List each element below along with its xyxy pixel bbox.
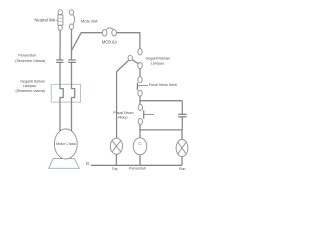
overload NO side terminal bbox=[128, 55, 132, 60]
wire B to stop button bbox=[139, 69, 141, 77]
holding aux contact C1 bars bbox=[178, 114, 186, 117]
motor M1 bbox=[54, 129, 77, 159]
stop button bridge bar bbox=[136, 83, 138, 91]
svg-text:(Sesentuh Utama): (Sesentuh Utama) bbox=[15, 59, 45, 63]
trip lamp wire vertical bbox=[116, 72, 118, 139]
wire stop to start bbox=[139, 96, 141, 104]
holding aux contact branch vertical top bbox=[181, 101, 183, 114]
contactor coil C bbox=[133, 138, 147, 155]
start button bridge bar bbox=[143, 110, 145, 118]
overload relay heater box bbox=[51, 84, 80, 102]
stop button actuator line bbox=[137, 84, 148, 86]
wire + heater jog neutral line bbox=[60, 63, 63, 133]
svg-text:Trip: Trip bbox=[112, 167, 118, 171]
overload trip contact terminal A bbox=[138, 49, 142, 55]
svg-text:MCB 6A: MCB 6A bbox=[102, 39, 118, 44]
svg-text:C: C bbox=[138, 142, 141, 146]
svg-text:Lampau: Lampau bbox=[23, 84, 36, 88]
wire + heater jog phase line bbox=[72, 63, 75, 133]
svg-text:Pensentuh: Pensentuh bbox=[129, 167, 146, 171]
holding branch top wire bbox=[140, 100, 182, 102]
svg-text:Lampau: Lampau bbox=[151, 61, 164, 65]
coil bottom stub bbox=[139, 155, 141, 166]
svg-text:N: N bbox=[86, 161, 89, 166]
svg-text:Run: Run bbox=[179, 167, 185, 171]
neutral link FN bbox=[58, 10, 63, 31]
trip lamp bottom stub bbox=[115, 154, 117, 165]
start button contact circles bbox=[138, 105, 142, 125]
overload moving arm bbox=[132, 60, 138, 64]
svg-text:Geganti Beban: Geganti Beban bbox=[20, 79, 45, 83]
start button actuator line bbox=[144, 113, 154, 115]
wire neutral column down bbox=[59, 30, 61, 59]
wire tap diagonal to MCB 6A bbox=[72, 33, 103, 51]
overload trip contact terminal B bbox=[138, 63, 142, 69]
svg-text:Pusat Tekan: Pusat Tekan bbox=[113, 111, 133, 115]
MCB 20A bbox=[69, 10, 74, 29]
svg-text:Pusat Tekan Henti: Pusat Tekan Henti bbox=[149, 83, 178, 87]
holding aux contact branch vertical bottom bbox=[181, 117, 183, 130]
contactor main contact on phase line bbox=[68, 60, 76, 62]
MCB 6A bbox=[102, 28, 116, 36]
svg-text:Neutral link: Neutral link bbox=[35, 18, 56, 23]
stop button contact circles bbox=[138, 77, 142, 97]
trip lamp bbox=[110, 138, 122, 154]
run lamp bottom stub bbox=[181, 157, 183, 166]
svg-text:Motor 1 fasa: Motor 1 fasa bbox=[56, 142, 76, 146]
wire phase column down bbox=[71, 29, 73, 59]
motor base trapezoid bbox=[49, 159, 80, 169]
leader line bbox=[55, 19, 58, 21]
svg-text:Geganti Beban: Geganti Beban bbox=[145, 57, 170, 61]
svg-text:(Sesentuh utama): (Sesentuh utama) bbox=[16, 89, 45, 93]
contactor main contact on neutral line bbox=[56, 60, 63, 62]
run lamp bbox=[176, 140, 188, 157]
wire MCB 6A to control column bbox=[116, 33, 139, 49]
svg-text:MCB 20A: MCB 20A bbox=[81, 18, 98, 23]
holding branch bottom wire bbox=[140, 129, 182, 131]
svg-text:Hidup: Hidup bbox=[118, 116, 128, 120]
svg-text:Penyentuh: Penyentuh bbox=[18, 53, 36, 57]
trip lamp wire diagonal bbox=[117, 60, 129, 71]
neutral bus N bbox=[91, 164, 182, 166]
wire start to coil node bbox=[139, 125, 141, 138]
run lamp top stub bbox=[181, 130, 183, 140]
